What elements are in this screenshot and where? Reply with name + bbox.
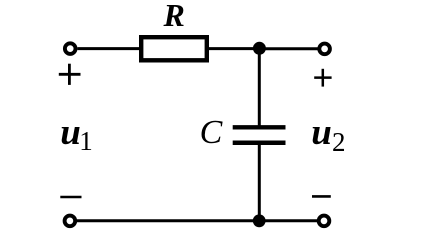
minus sign (output polarity) xyxy=(312,195,331,198)
wire vertical: node A to capacitor C xyxy=(258,48,261,127)
label u2 xyxy=(311,112,345,157)
capacitor C bottom plate xyxy=(233,141,286,146)
label u1 xyxy=(60,112,92,156)
wire vertical: capacitor C to node B xyxy=(258,143,261,221)
terminal T2 (output top-right) xyxy=(319,44,330,55)
resistor R xyxy=(141,37,207,60)
terminal T1 (input top-left) xyxy=(65,43,76,54)
plus sign (output polarity) xyxy=(314,69,331,87)
svg-text:C: C xyxy=(200,114,223,151)
capacitor C top plate xyxy=(233,125,286,129)
svg-text:u: u xyxy=(60,112,81,153)
svg-text:2: 2 xyxy=(332,127,346,157)
terminal T4 (output bottom-right) xyxy=(319,216,330,227)
svg-text:R: R xyxy=(163,0,185,33)
wire top-right: node A to T2 xyxy=(259,47,318,50)
wire top-middle: resistor to node A xyxy=(207,47,259,50)
svg-text:1: 1 xyxy=(79,126,93,156)
node A (top junction) xyxy=(253,42,266,55)
node B (bottom junction) xyxy=(253,214,266,227)
minus sign (input polarity) xyxy=(60,196,81,199)
wire bottom: T3 to T4 through node B xyxy=(77,219,318,222)
terminal T3 (input bottom-left) xyxy=(65,216,76,227)
wire top-left: T1 to resistor R xyxy=(77,47,141,50)
svg-text:u: u xyxy=(311,112,332,153)
plus sign (input polarity) xyxy=(59,64,81,85)
